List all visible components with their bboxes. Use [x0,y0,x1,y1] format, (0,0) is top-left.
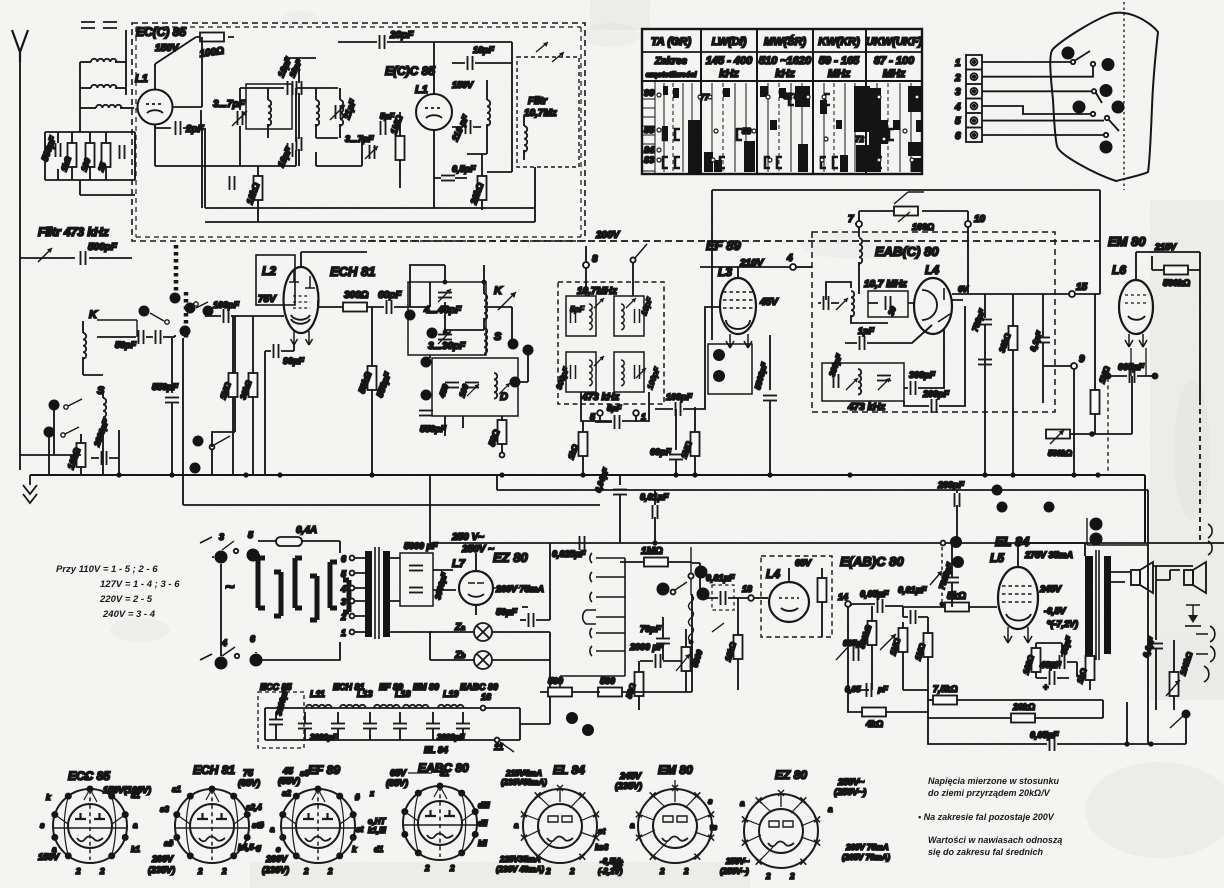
input transformer coil 1 [80,30,126,120]
switch dots on HT line [930,536,964,585]
svg-text:a: a [630,821,635,830]
mains switch lower [200,634,263,670]
EZ80 labels [451,532,528,570]
coupling capacitors top [81,22,117,28]
svg-text:dIII: dIII [478,801,490,810]
svg-text:s: s [40,821,45,830]
input coil L [80,105,134,108]
svg-text:0,025μF: 0,025μF [552,549,586,559]
svg-text:275V 35mA: 275V 35mA [1024,550,1073,560]
svg-text:200V: 200V [265,854,288,864]
diode detector [1185,605,1201,626]
output transformer core [1096,550,1099,660]
svg-text:215V4mA: 215V4mA [505,769,542,778]
svg-text:60pF: 60pF [378,290,402,301]
svg-text:3: 3 [219,532,224,542]
capacitor 10pF mid lower [297,137,302,166]
svg-text:ECH 81: ECH 81 [330,264,376,279]
mains switch upper [200,530,260,564]
svg-text:EM 80: EM 80 [1108,234,1146,249]
svg-text:s3: s3 [160,805,169,814]
capacitor 0,01μF tone [898,585,928,627]
svg-text:10pF: 10pF [473,45,495,55]
svg-text:225V35mA: 225V35mA [499,855,541,864]
svg-text:0,01μF: 0,01μF [706,573,735,583]
Filtr 473 kHz label [38,225,109,239]
socket EZ80 [720,768,890,881]
capacitor 5000pF EF89 [753,335,777,475]
svg-text:+: + [1043,682,1049,692]
svg-text:250V ~: 250V ~ [461,544,494,555]
svg-text:2: 2 [197,867,203,876]
svg-text:(235V): (235V) [148,865,175,875]
svg-text:0,05μF: 0,05μF [860,589,889,599]
osc junction dots small [443,280,487,335]
capacitor 200pF [904,306,965,413]
variable capacitor osc [330,105,345,120]
IF-I switch top [630,244,647,296]
EABC output line [952,282,1100,297]
svg-text:77: 77 [700,93,709,102]
capacitor 900pF cathode [265,344,304,475]
IF-I variable arrows [594,298,646,378]
svg-text:1pF: 1pF [858,326,875,336]
tube V3 ECH81 [284,252,368,345]
svg-text:75: 75 [243,768,254,778]
IF-I node 8 [583,246,598,296]
decoupling line [430,475,1224,690]
switch dots S [44,400,60,438]
ground symbol [23,475,37,503]
svg-text:14: 14 [838,592,848,602]
svg-text:Zakres: Zakres [654,56,688,67]
svg-text:s2: s2 [282,789,291,798]
svg-text:70pF: 70pF [640,624,662,634]
table header row [651,35,923,48]
EF89 cathode box [708,344,752,394]
tone pot 100kΩ [1166,640,1195,710]
voltage selector contacts [258,558,349,620]
svg-text:1MΩ: 1MΩ [641,546,663,557]
svg-text:a: a [740,799,745,808]
svg-text:L4: L4 [766,567,780,581]
svg-text:5pF: 5pF [607,404,622,413]
blob solder dots [1062,47,1125,154]
svg-text:200V: 200V [595,230,621,241]
mains wiring [212,553,340,664]
resistor 1MΩ grid ECH81 [218,316,237,475]
svg-text:0,01μF: 0,01μF [898,585,927,595]
svg-text:a: a [52,845,57,854]
blade 005μF [836,639,867,661]
resistor 1MΩ vertical FM [388,112,404,188]
shielded lead chain [176,245,186,338]
svg-text:200V: 200V [151,854,174,864]
svg-text:4kΩ: 4kΩ [865,719,883,729]
svg-text:a1: a1 [440,769,449,778]
svg-text:300Ω: 300Ω [344,290,369,301]
tube V2 E(C)C85 triode [416,42,452,130]
volume pot 500kΩ [857,606,876,690]
switch arrows filter [536,42,564,62]
svg-text:e: e [276,845,281,854]
svg-text:18: 18 [742,584,752,594]
svg-text:10,7Mz: 10,7Mz [524,108,557,119]
matrix numbers [700,92,864,144]
svg-text:E(C)C 85: E(C)C 85 [385,64,435,78]
volume pot wavy element [688,547,724,645]
svg-text:a1: a1 [172,785,181,794]
capacitor 200pF bus [937,480,965,543]
switch matrix black segments [662,86,922,174]
svg-text:20pF: 20pF [389,30,414,41]
capacitor 70pF detector [640,617,670,660]
svg-text:100pF: 100pF [213,300,240,310]
svg-text:s3: s3 [300,769,309,778]
heater labels [260,682,498,702]
speaker B [1184,562,1206,593]
lamp Zb [430,632,550,705]
svg-text:250V~: 250V~ [725,857,750,866]
svg-text:L1: L1 [415,84,428,96]
svg-text:510 ~1620: 510 ~1620 [759,55,812,67]
audio ground verticals [592,563,928,718]
tilde mains [225,579,235,596]
resistor 500kΩ EM80 [1136,252,1200,543]
svg-text:(230V): (230V) [262,865,289,875]
tube V4 EF89 [700,267,793,348]
EABC outer frame [712,190,1100,340]
svg-text:~: ~ [225,579,235,596]
socket EABC80 [368,761,490,873]
svg-text:500: 500 [548,676,563,686]
EABC dashed box [812,232,1055,412]
svg-text:145 - 400: 145 - 400 [706,55,753,67]
node 18 [742,584,768,601]
svg-text:50μF: 50μF [496,607,517,617]
svg-text:do ziemi przyrządem 20kΩ/V: do ziemi przyrządem 20kΩ/V [928,788,1051,798]
resistor 1MΩ IF [679,407,699,475]
svg-text:215V: 215V [1154,242,1177,252]
svg-text:005μF: 005μF [843,639,867,648]
EAB(C)80 label [875,244,939,259]
svg-text:kII: kII [478,839,488,848]
svg-text:2: 2 [340,612,346,622]
IF-I tank bottom-right [614,352,662,392]
svg-text:Napięcia mierzone w stosunku: Napięcia mierzone w stosunku [928,776,1060,786]
svg-text:s2,4: s2,4 [246,803,262,812]
svg-text:EL 84: EL 84 [424,745,448,755]
tube V8 EABC triode [769,568,809,622]
tube V2 E(C)C85 label [385,64,474,96]
svg-text:100Ω: 100Ω [912,222,934,232]
svg-text:EAB(C) 80: EAB(C) 80 [875,244,939,259]
svg-text:pF: pF [877,685,889,694]
svg-text:45: 45 [282,766,294,776]
svg-text:L6: L6 [1112,263,1126,277]
svg-text:kHz: kHz [775,68,795,80]
svg-text:K: K [89,309,98,321]
svg-text:dII: dII [478,819,488,828]
svg-text:EF 89: EF 89 [308,763,340,777]
L1 label FM [135,73,148,85]
chassis blob outline [1050,13,1158,181]
wire terminal 1 [982,51,1090,64]
svg-text:200pF: 200pF [922,389,950,399]
svg-text:245V: 245V [1039,584,1062,594]
tube EC(C)85 label [136,25,186,54]
potentiometer 6800 [676,629,705,692]
wire grid FM [172,37,202,208]
chassis center dashed line [1123,2,1125,190]
EL84 anode to transformer [1018,543,1085,556]
svg-text:2: 2 [449,864,455,873]
svg-text:EC(C) 85: EC(C) 85 [136,25,186,39]
svg-text:245V: 245V [619,771,642,781]
svg-text:473 kHz: 473 kHz [847,402,885,413]
osc section box lower [432,358,518,416]
svg-text:e: e [84,773,89,782]
svg-text:4: 4 [786,253,793,264]
svg-text:k: k [352,845,357,854]
svg-text:6V: 6V [958,285,968,294]
resistor 10kΩ det [723,598,742,690]
svg-text:L4: L4 [925,263,939,277]
right contact dots pair [1087,518,1147,546]
bus junction dots [116,472,1100,477]
svg-text:5: 5 [955,116,961,127]
switch blades S [61,399,82,437]
svg-text:4: 4 [340,584,346,594]
svg-text:150V(100V): 150V(100V) [103,785,151,795]
capacitor 110pF [450,113,481,143]
svg-text:3...7pF: 3...7pF [345,134,374,144]
svg-text:240V = 3 - 4: 240V = 3 - 4 [102,609,156,620]
capacitor 5pF [380,112,395,135]
svg-text:2: 2 [683,867,689,876]
variable capacitor 3...7pF second [345,134,378,159]
HT line lower [497,475,1148,490]
svg-text:1: 1 [955,58,961,69]
svg-text:ECH 81: ECH 81 [193,763,235,777]
phono jacks [1196,524,1215,682]
input switch dots K [139,293,214,337]
osc loop box FM [246,84,292,129]
svg-text:7,5kΩ: 7,5kΩ [933,684,958,694]
svg-text:2: 2 [327,867,333,876]
socket EL84 [496,763,623,876]
svg-text:się do zakresu fal średnich: się do zakresu fal średnich [928,847,1044,857]
svg-text:st: st [356,825,363,834]
wire terminal 6 [982,133,1108,137]
svg-text:150V: 150V [155,43,180,54]
resistor 50Ω [598,676,652,697]
svg-text:10: 10 [974,214,986,225]
capacitor 10pF mid upper [284,57,316,139]
capacitor 0,05 bottom [845,683,889,697]
switch matrix grid [642,81,911,174]
capacitor 700pF a [970,294,992,475]
svg-text:UKW(UKF): UKW(UKF) [866,36,923,48]
wafer switch contacts [560,553,625,689]
resistor 20kΩ [468,154,486,210]
svg-text:ks3: ks3 [595,843,609,852]
resistor 1MΩ grid b [888,622,907,690]
capacitor 550pF osc [374,370,446,434]
svg-text:e,HT: e,HT [368,817,386,826]
socket EF89 [262,763,363,876]
resistor 50Ω det [624,661,643,710]
input switch blades [97,302,208,337]
terminal numbers [954,58,961,142]
IF-I bottom nodes 5 1 [581,392,649,429]
tube V7 EZ80 [459,553,493,615]
band table frame [642,29,922,174]
svg-text:15: 15 [1076,282,1088,293]
svg-text:L2: L2 [262,264,276,278]
svg-text:L5: L5 [990,551,1004,565]
L4 triode dashed box [761,556,832,637]
resistor 1MΩ audio [620,546,692,567]
resistor 100Ω vertical [79,143,94,173]
capacitor 500pF left stack [39,134,60,162]
resistor 30kΩ right [997,294,1017,475]
IF-III tank 473 [822,352,904,401]
tube ECH81 label [330,264,376,279]
potentiometer 500kΩ lower [1046,430,1073,459]
speaker wiring [1111,566,1193,582]
wire terminal 4 [982,106,1095,116]
capacitor 50μF psu [496,607,550,627]
svg-text:Filtr: Filtr [528,96,548,107]
svg-text:4...40pF: 4...40pF [423,305,462,316]
pot wiper arrow [880,634,896,650]
svg-text:83: 83 [644,155,654,165]
svg-text:L11: L11 [310,689,325,699]
svg-text:(235V): (235V) [615,781,642,791]
svg-text:a#: a# [164,839,173,848]
svg-text:EZ 80: EZ 80 [775,768,807,782]
capacitor 0,05μF coupling [851,589,903,613]
IF-II tank top [818,282,908,323]
svg-text:(230V46mA): (230V46mA) [501,778,547,787]
svg-text:100pF: 100pF [666,392,693,402]
osc wiring [410,265,528,436]
svg-text:65V: 65V [795,558,812,568]
coil FM 2 [316,88,338,138]
svg-text:Wartości w nawiasach odnoszą: Wartości w nawiasach odnoszą [928,835,1062,845]
capacitor 100pF grid [205,300,284,432]
tube V1 EC(C)85 triode [138,37,197,125]
svg-text:250V~: 250V~ [837,777,865,787]
wire loop left input [45,120,135,195]
svg-text:MW(ŚR): MW(ŚR) [764,35,806,48]
svg-text:150V: 150V [38,852,60,862]
svg-text:5000 pF: 5000 pF [404,541,438,551]
svg-text:L1: L1 [135,73,148,85]
capacitor 0,1μF right [1028,294,1050,403]
resistor 30kΩ grid ECH81 [238,316,257,475]
capacitor 40μF [1036,660,1069,692]
svg-text:2: 2 [424,864,430,873]
antenna [12,30,28,455]
svg-text:EL 84: EL 84 [553,763,585,777]
svg-text:a: a [133,821,138,830]
E(AB)C 80 label [840,554,904,569]
svg-text:L13: L13 [357,689,373,699]
svg-text:3...30pF: 3...30pF [428,341,466,352]
wire antenna to input [19,455,21,470]
output transformer T2 windings [1085,556,1111,656]
capacitor 0,02μF left bus [593,466,627,543]
wire 200V rail [368,230,1100,241]
coil output FM [487,80,490,154]
capacitor 60pF [378,290,430,314]
resistor 1MΩ grid c [913,627,932,677]
svg-text:#: # [355,793,360,802]
capacitor 2000pF detector [629,642,686,668]
wire terminal 2 [982,62,1095,77]
svg-text:EM 80: EM 80 [413,682,439,692]
capacitor 0,05μF EM80 [1105,348,1157,475]
wire terminal 3 [982,89,1102,103]
svg-text:2: 2 [75,867,81,876]
transformer T1 core [375,547,379,639]
svg-text:MHz: MHz [883,68,906,80]
capacitor 7000pF [937,543,959,607]
speaker A [1131,562,1153,593]
resistor 25kΩ [928,684,1103,705]
capacitor 700pF b [978,360,992,365]
wire left tuner [20,375,103,475]
svg-text:kHz: kHz [719,68,739,80]
svg-text:(85V): (85V) [386,778,408,788]
asterisk mark [612,857,624,871]
psu HT vertical [390,543,550,632]
EF89 cathode dots [713,349,725,382]
svg-text:ts: ts [710,823,718,832]
svg-text:2000 pF: 2000 pF [629,642,664,652]
svg-text:2: 2 [789,872,795,881]
audio junction dots [566,566,710,737]
svg-text:75V: 75V [258,294,277,305]
capacitor 300pF [904,328,944,395]
svg-text:(250V~): (250V~) [720,867,749,876]
svg-text:S: S [494,331,502,343]
svg-text:6: 6 [955,131,961,142]
resistor anode L4 [818,568,827,637]
svg-text:EABC 80: EABC 80 [460,682,498,692]
variable caps lower D [437,383,479,400]
svg-text:KW(KR): KW(KR) [818,36,860,48]
svg-text:a: a [828,805,833,814]
svg-text:58: 58 [742,127,751,136]
svg-text:59 - 165: 59 - 165 [819,55,860,67]
IF-II label [864,263,939,290]
svg-text:260V 75mA: 260V 75mA [845,843,889,852]
osc section box upper [408,282,486,355]
svg-text:65V: 65V [390,768,407,778]
resistor 5kΩ [903,591,997,612]
resistor 1kΩ out [1075,644,1094,690]
coil 11pF tank [340,88,358,138]
svg-text:9: 9 [1079,354,1085,365]
resistor 4kΩ [848,690,928,729]
capacitor 60pF IF [650,409,683,475]
heater chokes [265,705,520,708]
IF-I tank top-left [566,296,596,336]
EZ80 output label [493,584,544,594]
